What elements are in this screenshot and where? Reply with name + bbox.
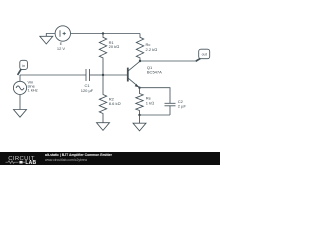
svg-text:out: out: [202, 52, 207, 56]
wire top rail: [71, 33, 140, 35]
label E 12 V: [57, 41, 66, 51]
transistor Q1: [128, 61, 140, 87]
voltage source Vin: [13, 75, 26, 95]
svg-text:1 kΩ: 1 kΩ: [146, 100, 154, 105]
svg-text:2.2 kΩ: 2.2 kΩ: [146, 47, 158, 52]
wire emitter to C2 top: [140, 88, 171, 103]
svg-text:BC547A: BC547A: [147, 70, 162, 75]
label R2 8.6 kOhm: [109, 96, 121, 106]
ground (below Vin): [14, 110, 27, 118]
junction bottom node: [138, 114, 140, 116]
svg-text:8.6 kΩ: 8.6 kΩ: [109, 101, 121, 106]
wire bottom (Re to C2): [140, 114, 171, 116]
svg-text:1 kHz: 1 kHz: [28, 88, 38, 93]
node in flag: [18, 60, 28, 75]
svg-text:in: in: [22, 64, 25, 68]
label Re 1 kOhm: [146, 95, 154, 105]
svg-text:12 V: 12 V: [57, 46, 66, 51]
wire Vin to ground: [19, 95, 21, 110]
label Q1 BC547A: [147, 65, 162, 75]
svg-text:120 µF: 120 µF: [81, 88, 94, 93]
ground (below Re): [133, 115, 146, 131]
junction base node: [102, 74, 104, 76]
label C2 2 uF: [178, 99, 187, 108]
ground (left of source E): [40, 34, 55, 45]
svg-text:2 µF: 2 µF: [178, 104, 187, 109]
footer logo CIRCUIT LAB: [6, 156, 37, 166]
resistor R2: [99, 75, 106, 123]
junction emitter node: [138, 87, 140, 89]
footer bar: [0, 152, 220, 165]
node out flag: [196, 49, 210, 61]
svg-text:www.circuitlab.com/c2ybrea: www.circuitlab.com/c2ybrea: [45, 158, 87, 162]
label Rc 2.2 kOhm: [146, 42, 158, 52]
ground (below R2): [97, 123, 110, 131]
svg-text:20 kΩ: 20 kΩ: [109, 44, 120, 49]
junction top rail / R1: [102, 32, 104, 34]
resistor Re: [136, 88, 143, 115]
wire input rail: [20, 74, 86, 76]
wire base: [103, 74, 127, 76]
capacitor C1: [86, 69, 103, 81]
resistor Rc: [136, 34, 143, 62]
svg-text:LAB: LAB: [25, 160, 36, 165]
capacitor C2: [165, 103, 176, 115]
resistor R1: [99, 34, 106, 76]
label R1 20 kOhm: [109, 40, 120, 49]
voltage source E: [55, 26, 70, 41]
footer title text: [45, 153, 113, 162]
wire collector to out: [140, 60, 195, 62]
svg-text:alt-static | BJT Amplifier Com: alt-static | BJT Amplifier Common Emitte…: [45, 153, 113, 157]
label Vin sine 1 kHz: [28, 79, 38, 92]
junction collector node: [139, 60, 141, 62]
label C1 120 uF: [81, 83, 94, 93]
